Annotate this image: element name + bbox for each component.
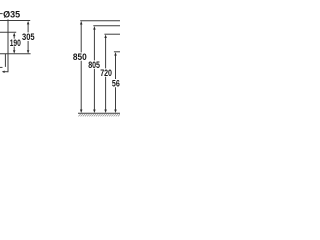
sub-deck horizontal dash <box>0 66 3 68</box>
dim 850 shaft lower <box>80 61 82 111</box>
dim 805 shaft upper <box>93 29 95 60</box>
dim 560 shaft upper <box>115 55 117 79</box>
dim 305 shaft lower <box>27 41 29 50</box>
dim 720 extension <box>104 33 120 35</box>
svg-text:305: 305 <box>22 32 35 43</box>
arrow up 190 <box>13 33 16 37</box>
arrow down 305 <box>27 50 30 53</box>
left arrow shaft <box>4 71 8 73</box>
svg-text:850: 850 <box>73 52 87 63</box>
arrow left (sub-deck) <box>2 70 5 73</box>
arrow down 720 <box>104 110 107 114</box>
background <box>0 0 120 120</box>
dim 850 shaft upper <box>80 24 82 52</box>
extension line mid (outlet height) <box>0 31 16 33</box>
arrow down 850 <box>80 110 83 114</box>
dim 560 shaft lower <box>115 87 117 111</box>
sub-deck vertical outline <box>4 54 6 67</box>
dim 850 extension <box>80 20 120 22</box>
dim 720 shaft upper <box>105 38 107 69</box>
dim 720 shaft lower <box>105 77 107 111</box>
extension line top (spout height) <box>0 20 30 22</box>
arrow down 190 <box>13 50 16 53</box>
floor hatching <box>78 114 120 117</box>
arrow down 560 <box>114 110 117 114</box>
arrowheads <box>2 21 117 113</box>
dim 805 shaft lower <box>93 69 95 111</box>
vertical extension line x=8 <box>7 19 9 72</box>
arrow up 560 <box>114 52 117 56</box>
dim 560 extension <box>114 51 120 53</box>
arrow up 720 <box>104 35 107 39</box>
deck line <box>0 53 31 55</box>
svg-text:Ø35: Ø35 <box>3 9 21 20</box>
floor line <box>78 112 120 114</box>
arrow up 305 <box>27 21 30 25</box>
centerline dash (cropped dash-dot leader) <box>0 13 3 15</box>
svg-text:805: 805 <box>88 60 100 71</box>
dim 190 shaft lower <box>13 47 15 51</box>
dim 805 extension <box>93 25 120 27</box>
svg-text:190: 190 <box>10 38 21 49</box>
arrow up 850 <box>80 21 83 25</box>
arrow up 805 <box>93 26 96 30</box>
arrow down 805 <box>93 110 96 114</box>
dim 305 shaft upper <box>27 24 29 32</box>
dim 190 shaft upper <box>13 36 15 39</box>
svg-text:720: 720 <box>100 68 112 79</box>
svg-text:560: 560 <box>112 78 120 89</box>
